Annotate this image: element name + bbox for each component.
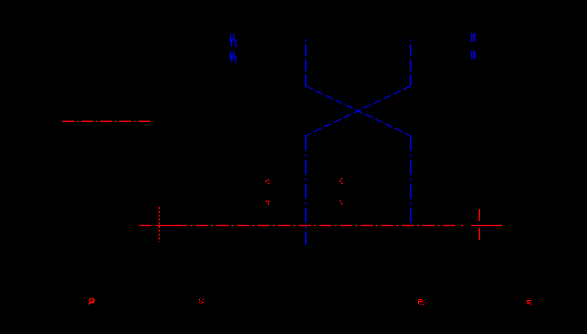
hidden line: right vertical (lower segment)	[410, 136, 412, 225]
hidden line: diagonal from right top to left bottom	[306, 86, 411, 136]
centerline: long horizontal axis	[139, 225, 502, 227]
red glyph: mark at x=420	[418, 299, 425, 305]
hidden line: left vertical (lower segment)	[305, 136, 307, 245]
blue label marks right (group 1)	[471, 33, 475, 42]
red glyph: mark at x=200	[199, 299, 204, 304]
center mark: vertical dotted line at x=159	[158, 207, 160, 242]
centerline: left horizontal segment	[62, 120, 153, 122]
red glyph: mark at x=528	[526, 300, 532, 305]
blue label marks left (group 2)	[230, 51, 236, 63]
red dot cluster C	[339, 178, 343, 184]
red dot cluster B	[266, 200, 270, 204]
center mark: vertical line at x=479 (upper)	[478, 209, 480, 221]
center mark: vertical line at x=479 (lower)	[478, 228, 480, 241]
red dot cluster A	[265, 179, 270, 184]
blue label marks left (group 1)	[230, 34, 237, 47]
red dot cluster D	[340, 200, 343, 204]
red glyph: diameter symbol at x=90	[88, 299, 95, 305]
blue label marks right (group 2)	[471, 51, 475, 60]
hidden line: diagonal from left top to right bottom	[306, 86, 411, 136]
hidden line: right vertical (top segment)	[410, 39, 412, 86]
hidden line: left vertical (top segment)	[305, 39, 307, 86]
